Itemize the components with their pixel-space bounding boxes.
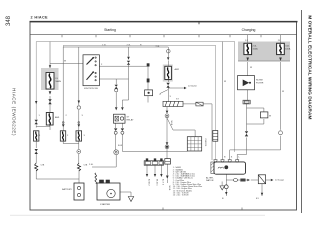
svg-text:2 HIACE: 2 HIACE bbox=[31, 16, 49, 20]
svg-text:B–R: B–R bbox=[118, 145, 123, 147]
svg-text:C/B: C/B bbox=[41, 165, 45, 167]
svg-text:to Starter: to Starter bbox=[188, 85, 197, 88]
svg-text:C/B: C/B bbox=[84, 165, 88, 167]
svg-text:MAIN: MAIN bbox=[56, 80, 62, 83]
svg-text:Charging: Charging bbox=[242, 28, 256, 32]
svg-text:B–Y 3: B–Y 3 bbox=[162, 179, 164, 186]
svg-text:348: 348 bbox=[6, 15, 12, 26]
svg-text:AM1: AM1 bbox=[55, 116, 60, 119]
svg-text:CHECK: CHECK bbox=[204, 139, 206, 147]
svg-text:AM2: AM2 bbox=[175, 68, 180, 71]
svg-text:100A: 100A bbox=[285, 47, 291, 50]
svg-text:HIACE (EWD622E): HIACE (EWD622E) bbox=[12, 88, 17, 136]
svg-text:STARTER: STARTER bbox=[100, 203, 110, 206]
svg-text:100A: 100A bbox=[253, 47, 259, 50]
svg-text:IGNITION SW: IGNITION SW bbox=[84, 88, 99, 90]
svg-text:Starting: Starting bbox=[104, 28, 116, 32]
svg-text:2J: 2J bbox=[278, 40, 280, 42]
svg-text:NATOR: NATOR bbox=[206, 179, 214, 182]
svg-text:to Gauge: to Gauge bbox=[275, 179, 285, 182]
svg-text:B–W 2: B–W 2 bbox=[147, 179, 149, 186]
svg-text:W–B: W–B bbox=[170, 121, 172, 126]
svg-text:BATTERY: BATTERY bbox=[62, 188, 72, 191]
svg-text:W–B: W–B bbox=[168, 186, 170, 191]
svg-text:W–B 1: W–B 1 bbox=[155, 179, 157, 186]
svg-text:FILTER: FILTER bbox=[256, 83, 264, 85]
svg-text:14 : 2.0L : To ECM: 14 : 2.0L : To ECM bbox=[173, 195, 189, 197]
svg-text:1J: 1J bbox=[245, 40, 247, 42]
svg-text:NOISE: NOISE bbox=[256, 80, 263, 82]
svg-text:RELAY: RELAY bbox=[127, 119, 135, 122]
